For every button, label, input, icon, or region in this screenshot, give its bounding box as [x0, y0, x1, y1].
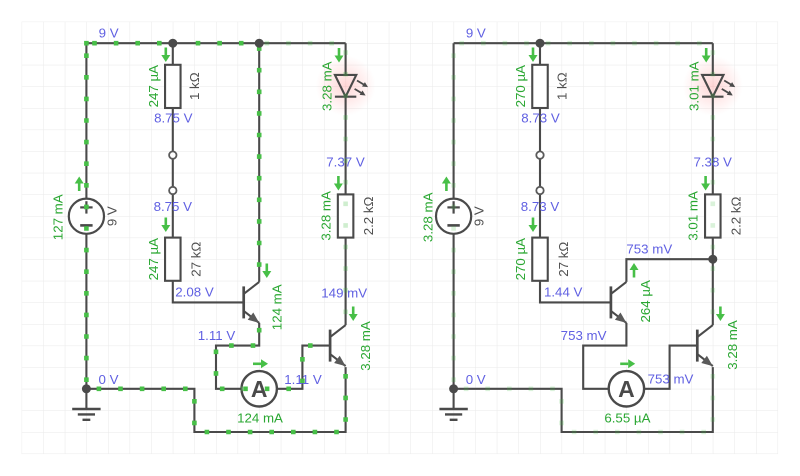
- ammeter M2: [609, 371, 644, 406]
- wire: top 9V rail: [86, 42, 345, 44]
- wire current dots: left top rail seg2: [196, 41, 260, 46]
- current arrow at R4 top: [529, 48, 538, 63]
- current arrow at Q1 collector: [262, 264, 271, 279]
- wire: 2.2k to transistor collector: [345, 238, 347, 326]
- switch S1 (closed): [169, 151, 176, 194]
- svg-text:3.01 mA: 3.01 mA: [687, 61, 702, 111]
- wire: LED cathode to 2.2k: [712, 97, 714, 195]
- svg-text:124 mA: 124 mA: [269, 284, 284, 330]
- svg-text:6.55 µA: 6.55 µA: [604, 411, 650, 426]
- wire: LED column (rail to LED anode): [712, 43, 714, 75]
- wire: ammeter right to output transistor base: [277, 346, 330, 389]
- wire: switch closed blade: [539, 155, 541, 190]
- svg-text:270 µA: 270 µA: [513, 238, 528, 281]
- node: rail / R4 junction: [536, 39, 545, 48]
- svg-text:1.44 V: 1.44 V: [544, 285, 583, 300]
- transistor Q4 (NPN): [697, 325, 713, 366]
- wire current dots: right LED column (faint): [710, 50, 715, 324]
- svg-text:8.75 V: 8.75 V: [154, 199, 193, 214]
- svg-text:8.75 V: 8.75 V: [154, 111, 193, 126]
- ammeter M1: [242, 371, 277, 406]
- svg-text:A: A: [618, 376, 635, 402]
- svg-text:7.38 V: 7.38 V: [693, 155, 732, 170]
- wire: Q1 collector column: [258, 43, 260, 282]
- svg-text:1.11 V: 1.11 V: [284, 372, 322, 387]
- svg-text:9 V: 9 V: [466, 26, 486, 41]
- wire: 2.2k to transistor collector: [712, 238, 714, 326]
- current arrow at R3 top: [334, 176, 343, 191]
- svg-text:0 V: 0 V: [466, 372, 486, 387]
- ground symbol (right circuit): [439, 389, 467, 420]
- svg-text:247 µA: 247 µA: [146, 238, 161, 281]
- LED D1: [335, 75, 368, 97]
- wire current dots: Q1 collector wire: [257, 46, 262, 281]
- wire current dots: left rail LED branch (faint): [265, 41, 346, 46]
- current arrow at Q3 collector (upward): [630, 263, 639, 278]
- wire current dots: left LED column (faint): [343, 50, 348, 326]
- svg-text:1 kΩ: 1 kΩ: [554, 72, 569, 100]
- svg-text:27 kΩ: 27 kΩ: [189, 242, 204, 277]
- current arrow at R2 top: [161, 218, 170, 233]
- wire: top 9V rail: [454, 42, 713, 44]
- current arrow at Q2 collector: [349, 307, 358, 322]
- svg-text:3.28 mA: 3.28 mA: [358, 321, 373, 371]
- wire: ground return rail: [86, 367, 345, 432]
- wire current dots: left top rail seg1: [92, 41, 173, 46]
- wire current dots: left ground return: [97, 368, 346, 432]
- node: rail / R1 junction: [168, 39, 177, 48]
- current arrow at V2: [442, 177, 451, 192]
- svg-text:9 V: 9 V: [472, 206, 487, 226]
- wire: switch to 27k resistor: [539, 191, 541, 238]
- wire current dots: left battery column: [84, 53, 89, 388]
- wire current dots: Q1 emitter to ammeter: [216, 324, 259, 389]
- node: 753mV net junction: [708, 255, 717, 264]
- wire: battery column net (col A): [453, 43, 455, 389]
- wire: 753mV node to Q3 collector: [626, 259, 712, 282]
- wire: battery column net (col A): [85, 43, 87, 389]
- node: rail / Q1 collector junction: [255, 39, 264, 48]
- wire: switch to 27k resistor: [172, 191, 174, 238]
- svg-text:3.01 mA: 3.01 mA: [686, 191, 701, 241]
- wire: R4 bottom to switch: [539, 108, 541, 155]
- svg-text:124 mA: 124 mA: [237, 411, 283, 426]
- svg-text:127 mA: 127 mA: [50, 194, 65, 240]
- wire current dots: right top rail (faint): [459, 41, 712, 46]
- transistor Q3 (NPN): [611, 282, 627, 323]
- svg-text:753 mV: 753 mV: [561, 328, 607, 343]
- svg-text:3.28 mA: 3.28 mA: [318, 191, 333, 241]
- node: right ground junction (0V): [449, 384, 458, 393]
- wire: switch closed blade: [172, 155, 174, 190]
- LED D2 glow: [683, 56, 743, 116]
- LED D2: [702, 75, 735, 97]
- svg-text:3.28 mA: 3.28 mA: [319, 61, 334, 111]
- wire: R1 bottom to switch: [172, 108, 174, 155]
- svg-text:753 mV: 753 mV: [648, 371, 694, 386]
- resistor R4 (1 kΩ): [532, 65, 548, 108]
- transistor Q1 (NPN): [244, 282, 260, 323]
- resistor R2 (27 kΩ): [165, 238, 181, 281]
- svg-text:1 kΩ: 1 kΩ: [187, 72, 202, 100]
- resistor R1 (1 kΩ): [165, 65, 181, 108]
- wire: LED column (rail to LED anode): [345, 43, 347, 75]
- wire current dots: right battery column (faint): [451, 53, 456, 388]
- wire current dots: right ground return (faint): [464, 368, 713, 432]
- wire current dots: ammeter to Q2 base: [243, 346, 328, 389]
- current arrow at R6 top: [701, 176, 710, 191]
- current arrow at D2: [702, 48, 711, 63]
- wire: resistor column upper (rail to R top): [172, 43, 174, 65]
- svg-text:264 µA: 264 µA: [638, 280, 653, 323]
- current arrow at R1 top: [161, 48, 170, 63]
- wire: ground return rail: [454, 367, 713, 432]
- svg-text:9 V: 9 V: [99, 26, 119, 41]
- svg-text:8.73 V: 8.73 V: [521, 199, 560, 214]
- switch S2 (closed): [536, 151, 543, 194]
- voltage source V1 (9V): [69, 199, 104, 234]
- resistor R6 (2.2 kΩ): [705, 194, 721, 237]
- wire: LED cathode to 2.2k: [345, 97, 347, 195]
- wire: emitter to ammeter left: [583, 323, 626, 389]
- wire: resistor column upper (rail to R top): [539, 43, 541, 65]
- current arrow at R5 top: [529, 218, 538, 233]
- svg-text:2.2 kΩ: 2.2 kΩ: [361, 196, 376, 235]
- wire: emitter to ammeter left: [216, 323, 259, 389]
- node: left ground junction (0V): [82, 384, 91, 393]
- current arrow at V1: [75, 177, 84, 192]
- current arrow at D1: [335, 48, 344, 63]
- svg-text:247 µA: 247 µA: [146, 65, 161, 108]
- svg-text:1.11 V: 1.11 V: [198, 328, 236, 343]
- current arrow at ammeter M1: [253, 359, 268, 368]
- svg-text:2.08 V: 2.08 V: [175, 285, 214, 300]
- ground symbol (left circuit): [72, 389, 100, 420]
- wire: 27k bottom to base corner: [173, 281, 244, 303]
- wire: 27k bottom to base corner: [540, 281, 611, 303]
- svg-text:2.2 kΩ: 2.2 kΩ: [728, 196, 743, 235]
- wire: ammeter right to output transistor base: [644, 346, 697, 389]
- svg-text:270 µA: 270 µA: [513, 65, 528, 108]
- svg-text:9 V: 9 V: [104, 206, 119, 226]
- resistor R3 (2.2 kΩ): [338, 194, 354, 237]
- svg-text:27 kΩ: 27 kΩ: [556, 242, 571, 277]
- current arrow at ammeter M2: [620, 359, 635, 368]
- svg-text:753 mV: 753 mV: [626, 241, 672, 256]
- svg-text:A: A: [251, 376, 268, 402]
- svg-text:8.73 V: 8.73 V: [521, 111, 560, 126]
- current arrow at Q4 collector: [716, 307, 725, 322]
- voltage source V2 (9V): [436, 199, 471, 234]
- svg-text:149 mV: 149 mV: [321, 286, 367, 301]
- svg-text:3.28 mA: 3.28 mA: [725, 320, 740, 370]
- LED D1 glow: [316, 56, 376, 116]
- svg-text:7.37 V: 7.37 V: [326, 155, 365, 170]
- svg-text:0 V: 0 V: [99, 372, 119, 387]
- svg-text:3.28 mA: 3.28 mA: [420, 192, 435, 242]
- resistor R5 (27 kΩ): [532, 238, 548, 281]
- transistor Q2 (NPN): [330, 325, 346, 366]
- wire current dots: corner square at left rail corner: [84, 41, 89, 46]
